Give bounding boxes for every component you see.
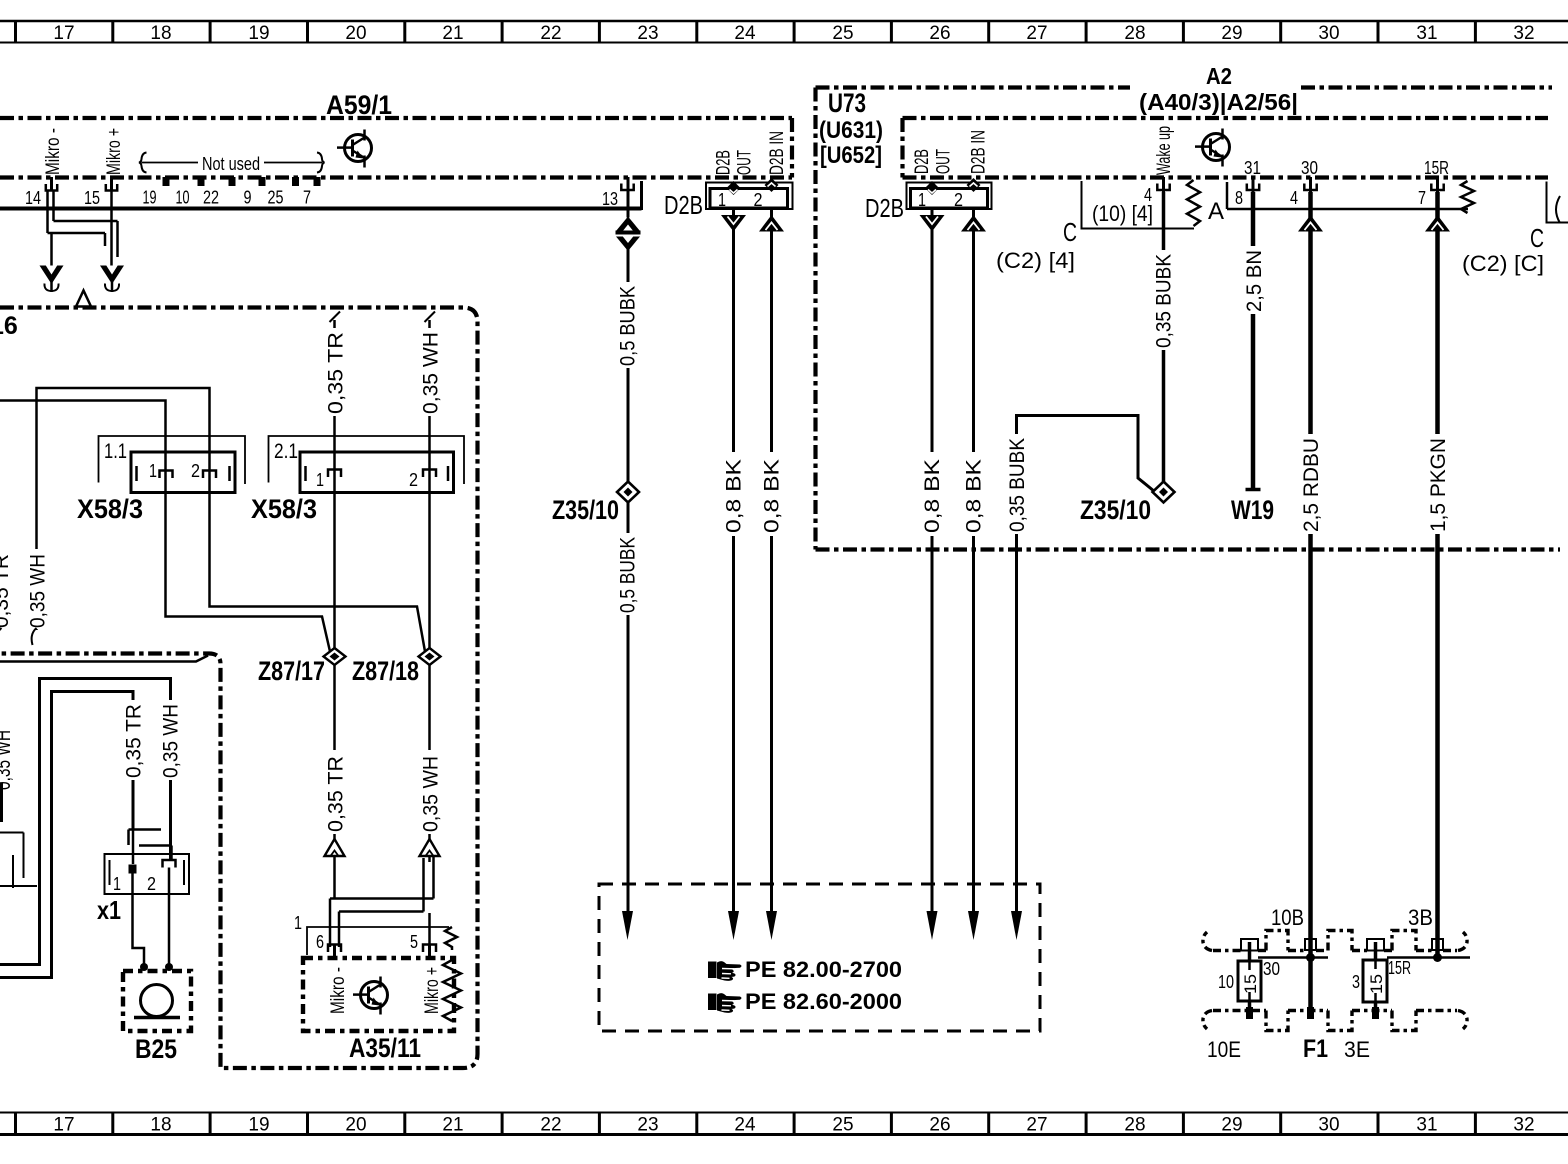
svg-text:20: 20 [345,1115,366,1136]
open arrow WH [420,839,440,856]
wire W1 to X58/3-1.1 pin1 and Z87/17 [0,401,330,652]
wire pin13 0,5 BUBK upper [627,192,630,218]
svg-text:2: 2 [147,874,156,894]
label 0,8 BK wire1 [723,452,746,536]
wire 2,5 RDBU [1308,192,1313,1010]
A2 inner unit strip [903,118,1549,178]
pin 6 A35/11 [316,932,341,959]
svg-text:(U631): (U631) [819,117,883,144]
svg-text:21: 21 [442,23,463,44]
svg-text:29: 29 [1221,23,1242,44]
svg-text:19: 19 [143,188,157,208]
pin 5 A35/11 [410,932,436,959]
svg-text:0,35 WH: 0,35 WH [420,332,443,414]
open arrow TR [325,839,345,856]
svg-text:0,35 WH: 0,35 WH [420,756,443,832]
arrow into PE wire1 [622,911,633,940]
wire D2B pin1 left [732,194,735,913]
svg-text:0,35 TR: 0,35 TR [123,704,146,778]
svg-text:X58/3: X58/3 [251,494,317,524]
not used pins 19 10 22 9 25 7 [143,177,321,208]
splice Z35/10 right [1153,482,1175,503]
wire fuse2 to PKGN [1387,956,1470,959]
svg-text:Z87/17: Z87/17 [258,656,325,686]
svg-text:10: 10 [1218,972,1234,992]
svg-text:Z87/18: Z87/18 [352,656,419,686]
svg-text:(C2) [C]: (C2) [C] [1462,251,1544,276]
svg-text:D2B: D2B [714,150,735,175]
label 0,35 WH (x1) [160,700,183,780]
svg-text:19: 19 [248,1115,269,1136]
cut label fragment lower left [0,730,15,790]
svg-text:14: 14 [25,188,41,208]
svg-text:0,35 WH: 0,35 WH [160,704,183,778]
label 0,8 BK wire4 [963,452,986,536]
PE reference box [599,884,1040,1031]
arrow into PE wire4 [927,911,938,940]
svg-text:B25: B25 [135,1034,177,1064]
label D2B IN (left connector pin2) [767,131,788,175]
cut label fragment left [0,554,13,628]
svg-text:PE 82.00-2700: PE 82.00-2700 [745,957,902,982]
svg-text:(10) [4]: (10) [4] [1092,201,1153,226]
hand icon 1 [708,961,742,981]
svg-text:10E: 10E [1207,1037,1241,1062]
arrow in pin2 left [759,215,784,232]
ground point W19 [1246,488,1261,492]
wire to x1 pin1 (0,35 TR) [0,692,133,978]
fuse box F1 top outline [1203,931,1467,951]
svg-text:28: 28 [1124,1115,1145,1136]
svg-text:Mikro -: Mikro - [328,967,349,1014]
arrow out pin1 left [721,215,746,232]
wire pin 14 to mic arrow [50,233,53,267]
label Mikro + (A35/11) [422,967,443,1014]
splice Z35/10 left [617,482,639,503]
wire 2,5 BN to W19 [1251,192,1256,488]
label 0,35 TR lower [325,750,348,834]
connector X58/3 (1.1) shell [99,436,246,484]
svg-text:26: 26 [929,1115,950,1136]
wire fuse1 to RDBU [1258,956,1328,959]
label D2B OUT (left connector pin1) [714,150,735,175]
svg-text:17: 17 [53,1115,74,1136]
svg-text:3: 3 [1352,972,1360,992]
wire W2 to X58/3-1.1 pin2 and Z87/18 [37,388,426,652]
arrow into PE wire3 [766,911,777,940]
svg-text:29: 29 [1221,1115,1242,1136]
label 2,5 RDBU [1300,434,1323,534]
label Wake up [1154,126,1175,175]
connector X58/3 (2.1) body [300,452,454,493]
label 0,35 TR (x1) [123,700,146,780]
label 0,35 BUBK pin4 [1153,250,1176,350]
svg-text:C: C [1530,223,1544,253]
arrow in pin2 A2 [961,215,986,232]
resistor coil A2 right [1461,181,1474,213]
svg-text:22: 22 [540,1115,561,1136]
svg-text:15R: 15R [1424,158,1449,178]
svg-text:15: 15 [1367,974,1386,994]
label Mikro + (pin 15) [104,128,125,175]
svg-text:30: 30 [1318,1115,1339,1136]
connector shell 1 of A35/11 [294,913,449,955]
twisted-pair arrow right [100,266,124,293]
svg-text:0,8 BK: 0,8 BK [723,459,746,533]
fuse F1/2 wire [1374,942,1378,1019]
twisted pair into A35/11 [330,856,434,947]
wire 0,35 BUBK branch [1017,416,1155,914]
svg-text:0,35 BUBK: 0,35 BUBK [1153,254,1176,348]
wire Z87/18 to arrow [428,468,431,842]
wire stub 0,35 TR above X58/3-2.1 [325,312,348,469]
label 0,35 WH lower [420,750,443,834]
hand icon 2 [708,993,742,1013]
svg-text:2: 2 [191,461,200,481]
Not used bracket [139,151,325,174]
svg-text:18: 18 [150,23,171,44]
svg-text:13: 13 [602,189,618,209]
grid ruler bottom [0,1113,1568,1136]
svg-text:F1: F1 [1303,1035,1328,1063]
svg-text:1: 1 [294,913,302,933]
pin 30 A2 [1290,158,1318,208]
svg-text:3B: 3B [1408,905,1433,930]
svg-text:1: 1 [316,470,324,490]
connector C bracket left [1082,181,1195,229]
svg-text:7: 7 [1418,188,1426,208]
microphone amp box A35/11 [303,958,454,1031]
transistor symbol in A59/1 [337,130,372,168]
grid ruler top [0,21,1568,44]
svg-text:Mikro +: Mikro + [422,967,443,1014]
radio unit A2 outer box [816,88,1561,550]
fuse F1/1 wire [1248,942,1252,1019]
half arrow hook left WH [32,628,37,645]
svg-text:2,5 RDBU: 2,5 RDBU [1300,438,1323,532]
svg-text:25: 25 [832,1115,853,1136]
resistor coil A2 left [1187,180,1200,226]
svg-text:Not used: Not used [202,154,260,174]
svg-text:24: 24 [734,23,756,44]
label 0,35 BUBK branch [1006,434,1029,534]
svg-text:25: 25 [268,188,284,208]
svg-text:22: 22 [540,23,561,44]
pin square PKGN at fusebox [1432,939,1443,950]
svg-text:[U652]: [U652] [820,142,882,169]
svg-text:27: 27 [1026,23,1047,44]
label 2,5 BN [1243,246,1266,314]
label 0,5 BUBK upper [617,282,640,368]
svg-text:Z35/10: Z35/10 [1080,495,1151,525]
svg-text:32: 32 [1513,1115,1534,1136]
resistor coil A35/11 small [445,927,457,950]
connector C bracket right [1547,182,1568,224]
svg-text:23: 23 [637,1115,658,1136]
svg-text:Wake up: Wake up [1154,126,1175,175]
svg-text:0,35 WH: 0,35 WH [0,730,15,790]
svg-text:15: 15 [1241,974,1260,994]
label Mikro - (A35/11) [328,967,349,1014]
svg-text:31: 31 [1244,158,1261,178]
wire 0,5 BUBK to PE [627,248,630,913]
svg-text:0,5 BUBK: 0,5 BUBK [617,286,640,366]
svg-text:0,35 BUBK: 0,35 BUBK [1006,438,1029,532]
svg-text:20: 20 [345,23,366,44]
svg-text:15: 15 [84,188,100,208]
svg-text:C: C [1063,217,1077,247]
svg-text:31: 31 [1416,1115,1437,1136]
svg-text:24: 24 [734,1115,756,1136]
svg-text:W19: W19 [1231,495,1274,525]
svg-text:1: 1 [149,461,157,481]
twisted pair shield pins 14/15 [48,191,118,258]
svg-text:0,35 TR: 0,35 TR [325,756,348,832]
cut connector fragment left edge [0,833,37,889]
svg-text:(C2) [4]: (C2) [4] [996,248,1075,273]
wire 1,5 PKGN [1435,192,1440,958]
arrow into PE wire5 [968,911,979,940]
svg-text:25: 25 [832,23,853,44]
svg-text:27: 27 [1026,1115,1047,1136]
connector line C right [1227,182,1468,209]
svg-text:2,5 BN: 2,5 BN [1243,250,1266,312]
twisted-pair arrow left [40,266,64,293]
wire to x1 pin2 (0,35 WH) [0,679,171,965]
svg-text:Mikro -: Mikro - [43,128,64,175]
svg-text:5: 5 [410,932,418,952]
svg-text:30: 30 [1263,959,1280,979]
svg-text:U73: U73 [828,88,866,118]
shield connection symbol [616,217,641,252]
svg-text:OUT: OUT [934,149,955,174]
svg-text:30: 30 [1301,158,1318,178]
svg-text:8: 8 [1235,188,1243,208]
svg-text:30: 30 [1318,23,1339,44]
cut wire fragment left edge [0,783,3,822]
svg-text:18: 18 [150,1115,171,1136]
wire D2B pin2 A2 [972,188,975,913]
arrow into PE wire6 [1011,911,1022,940]
svg-text:1,5 PKGN: 1,5 PKGN [1427,438,1450,532]
twisted pair into x1 [129,829,172,864]
svg-text:7: 7 [303,188,311,208]
svg-text:32: 32 [1513,23,1534,44]
label 1,5 PKGN [1427,434,1450,534]
svg-text:31: 31 [1416,23,1437,44]
svg-text:10: 10 [176,188,190,208]
pin square RDBU at fusebox [1305,939,1316,950]
fuse F1/2 pin top [1367,939,1384,951]
label D2B IN (A2 connector pin2) [969,130,990,174]
connector x1 [105,854,190,894]
connector D2B A2 [907,178,992,210]
svg-text:PE 82.60-2000: PE 82.60-2000 [745,989,902,1014]
arrow in pin30 [1298,215,1323,232]
svg-text:1: 1 [718,190,726,210]
svg-text:4: 4 [1290,188,1298,208]
svg-text:A59/1: A59/1 [326,90,392,120]
wire bus A59/1 [0,181,642,210]
resistor coil A35/11 large [443,960,461,1021]
fuse box F1 bottom outline [1203,1011,1467,1031]
svg-text:6: 6 [316,932,324,952]
svg-text:D2B: D2B [912,149,933,174]
svg-text:0,35 TR: 0,35 TR [0,554,13,628]
connector X58/3 (1.1) body [131,452,235,493]
svg-text:0,35 WH: 0,35 WH [27,554,50,628]
junction dot RDBU [1306,953,1315,962]
svg-text:A2: A2 [1206,63,1232,89]
pin 14 [25,177,57,208]
pin 13 [602,177,634,209]
junction dot B25 pin2 [165,963,173,971]
svg-text:28: 28 [1124,23,1145,44]
wire x1 pin1 to B25 [133,874,145,968]
label 0,8 BK wire2 [761,452,784,536]
svg-text:22: 22 [203,188,219,208]
wire stub 0,35 WH above X58/3-2.1 [420,312,443,469]
svg-text:23: 23 [637,23,658,44]
arrow into PE wire2 [728,911,739,940]
svg-text:D2B IN: D2B IN [767,131,788,175]
svg-text:A: A [1208,198,1224,225]
svg-text:1: 1 [113,874,121,894]
wire pin 15 to mic arrow [110,191,113,268]
svg-text:D2B: D2B [664,190,703,220]
svg-text:0,8 BK: 0,8 BK [963,459,986,533]
svg-text:OUT: OUT [735,150,756,175]
arrow out pin1 A2 [920,215,945,232]
svg-text:0,8 BK: 0,8 BK [921,459,944,533]
label Mikro - (pin 14) [43,128,64,175]
junction dot PKGN [1433,953,1442,962]
wire pin4 0,35 BUBK [1162,192,1166,483]
half arrow hook cut [0,628,2,645]
svg-text:2: 2 [409,470,418,490]
junction dot B25 pin1 [140,963,148,971]
svg-text:19: 19 [248,23,269,44]
label 0,8 BK wire3 [921,452,944,536]
svg-text:X58/3: X58/3 [77,494,143,524]
wire D2B pin1 A2 [931,194,934,913]
svg-text:21: 21 [442,1115,463,1136]
pin 15 [84,177,117,208]
fuse F1/1 body 15A [1238,961,1261,1001]
svg-text:26: 26 [929,23,950,44]
svg-text:1.1: 1.1 [104,440,127,463]
svg-text:2: 2 [754,190,763,210]
RDBU wire fat stub [1307,1007,1314,1019]
cable entry notch [76,291,91,307]
wire x1 pin2 to B25 [168,868,171,968]
control unit A59/1 box [0,118,792,178]
label 0,5 BUBK lower [617,533,640,615]
svg-text:Mikro +: Mikro + [104,128,125,175]
pin 31 A2 [1235,158,1261,208]
label 0,35 WH left edge [27,549,50,629]
svg-text:0,8 BK: 0,8 BK [761,459,784,533]
harness region box (mic assembly) [0,308,478,1069]
svg-text:A35/11: A35/11 [349,1033,421,1063]
microphone B25 box [123,971,191,1031]
splice Z87/17 [324,648,346,665]
connector X58/3 (2.1) shell [269,436,465,484]
svg-text:Z35/10: Z35/10 [552,495,619,525]
svg-text:17: 17 [53,23,74,44]
splice Z87/18 [419,648,441,665]
svg-text:0,35 TR: 0,35 TR [325,332,348,414]
transistor symbol in A2 [1195,129,1230,167]
svg-text:1: 1 [918,190,926,210]
pin 4 A2 [1144,177,1170,205]
svg-text:x1: x1 [97,895,121,925]
svg-text:(A40/3)|A2/56|: (A40/3)|A2/56| [1139,89,1298,115]
svg-text:D2B: D2B [865,193,904,223]
pin 15R A2 [1418,158,1449,208]
connector D2B left [706,178,793,210]
svg-text:9: 9 [244,188,252,208]
svg-text:2.1: 2.1 [274,440,298,463]
wire Z87/17 to arrow [333,468,336,842]
microphone symbol B25 [134,985,180,1018]
transistor symbol in A35/11 [353,977,388,1015]
svg-text:0,5 BUBK: 0,5 BUBK [617,537,640,613]
label D2B OUT (A2 connector pin1) [912,149,933,174]
svg-text:16: 16 [0,312,18,340]
svg-text:3E: 3E [1344,1037,1370,1062]
svg-text:10B: 10B [1271,905,1304,930]
wire D2B pin2 left [770,188,773,913]
fuse F1/2 body 15A [1363,960,1387,1002]
fuse F1/1 pin top [1241,939,1258,951]
arrow in pin15R [1425,215,1450,232]
wire under corner [0,656,208,662]
svg-text:2: 2 [954,190,963,210]
svg-text:D2B IN: D2B IN [969,130,990,174]
svg-text:15R: 15R [1388,958,1411,978]
